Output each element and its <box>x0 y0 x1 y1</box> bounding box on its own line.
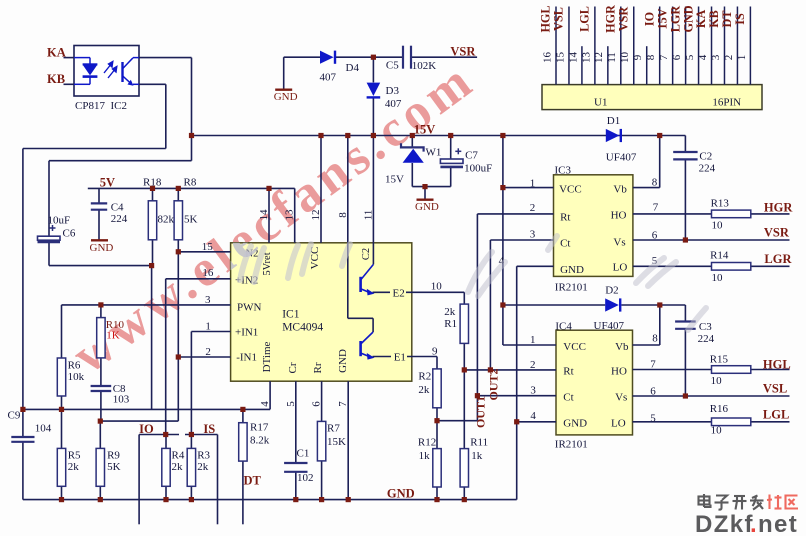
svg-text:82k: 82k <box>158 214 175 226</box>
svg-text:KB: KB <box>707 10 721 28</box>
wire pin16 vertical to IO <box>165 279 167 435</box>
GND symbol W1C7 <box>417 198 434 200</box>
svg-text:-IN1: -IN1 <box>236 352 257 364</box>
wire R11 top vertical <box>463 370 465 449</box>
svg-text:Cr: Cr <box>287 362 299 373</box>
wire R4 leads <box>165 435 167 449</box>
capacitor C4 224 <box>91 202 107 204</box>
diode D4 407 <box>320 51 334 64</box>
resistor R9 5K <box>96 448 104 486</box>
resistor R14 10 <box>712 263 751 271</box>
svg-text:2: 2 <box>530 359 536 371</box>
svg-text:DT: DT <box>244 474 262 488</box>
wire IO stub <box>139 434 179 436</box>
wire pin15-node vertical <box>177 252 179 421</box>
svg-text:15V: 15V <box>655 8 669 29</box>
svg-text:16PIN: 16PIN <box>712 97 741 109</box>
wire IC4 pin7 HO <box>633 369 712 371</box>
capacitor C1 102 <box>284 462 307 464</box>
wire R11 bottom lead <box>463 487 465 500</box>
wire LGL out <box>751 421 790 423</box>
svg-text:GND: GND <box>337 349 349 373</box>
svg-text:Ct: Ct <box>560 238 570 250</box>
svg-text:DT: DT <box>720 11 734 28</box>
svg-text:10uF: 10uF <box>48 215 71 227</box>
wire E1 output <box>373 356 438 358</box>
wire 5V rail <box>88 187 295 189</box>
wire pin1 vertical to IS <box>190 332 192 435</box>
wire C8/R9 node to vertical <box>100 420 178 422</box>
svg-text:407: 407 <box>385 98 402 110</box>
svg-text:224: 224 <box>111 213 128 225</box>
svg-text:8: 8 <box>337 212 349 218</box>
wire D3 top lead <box>372 57 374 82</box>
svg-text:15V: 15V <box>414 123 436 137</box>
svg-text:11: 11 <box>606 52 618 63</box>
svg-text:MC4094: MC4094 <box>282 322 323 334</box>
wire IC1 pin7 to GND <box>347 381 349 499</box>
svg-text:2k: 2k <box>172 461 184 473</box>
svg-text:1k: 1k <box>419 450 431 462</box>
grey watermark smudges <box>468 236 706 330</box>
wire IC1 pin15 <box>178 251 230 253</box>
svg-text:R11: R11 <box>470 437 488 449</box>
wire C4 bottom lead <box>98 210 100 239</box>
svg-text:E2: E2 <box>393 288 405 300</box>
opto LED <box>74 57 90 59</box>
wire IC3 pin8 Vb <box>633 187 660 189</box>
wire C6 to R18 node <box>49 265 152 267</box>
svg-text:16: 16 <box>202 267 214 279</box>
label E1 <box>391 351 407 361</box>
wire W1 bottom lead <box>411 163 413 187</box>
wire IC3 pin5 LO <box>633 265 712 267</box>
svg-text:7: 7 <box>658 54 670 60</box>
wire IC4 pin2 Rt <box>464 369 556 371</box>
IC1 MC4094 box <box>231 243 412 381</box>
GND symbol C4 <box>91 239 108 241</box>
connector U1 16PIN box <box>542 85 762 110</box>
svg-text:R7: R7 <box>327 423 340 435</box>
svg-text:Vs: Vs <box>615 392 627 404</box>
wire C9 bottom lead <box>22 442 24 500</box>
transistor Q upper E2 <box>359 277 362 292</box>
IC3 IR2101 box <box>554 175 633 277</box>
svg-text:10: 10 <box>712 272 724 284</box>
svg-text:PWN: PWN <box>237 302 262 314</box>
wire IS vertical <box>217 435 219 525</box>
svg-text:D2: D2 <box>605 285 618 297</box>
svg-text:E1: E1 <box>394 352 406 364</box>
wire D4 cathode to node <box>336 56 374 58</box>
svg-text:GND: GND <box>563 418 587 430</box>
wire IS stub <box>185 434 218 436</box>
wire R18-node vertical <box>151 266 153 410</box>
svg-text:12: 12 <box>593 52 605 63</box>
svg-text:R14: R14 <box>710 250 729 262</box>
svg-text:2k: 2k <box>68 461 80 473</box>
svg-text:10: 10 <box>619 52 631 64</box>
junction dots <box>189 133 194 138</box>
resistor R13 10 <box>712 210 751 218</box>
wire R3 leads <box>190 435 192 449</box>
svg-text:2: 2 <box>530 202 536 214</box>
svg-text:DZkf: DZkf <box>695 511 754 536</box>
svg-text:R1: R1 <box>444 318 457 330</box>
svg-text:HO: HO <box>611 210 627 222</box>
resistor R10 1K <box>97 318 105 358</box>
svg-text:10: 10 <box>711 375 723 387</box>
svg-text:C3: C3 <box>699 321 712 333</box>
svg-text:U1: U1 <box>594 97 607 109</box>
wire R17 bottom DT <box>242 461 244 524</box>
svg-text:15V: 15V <box>385 174 404 186</box>
svg-text:R12: R12 <box>418 437 436 449</box>
svg-text:R3: R3 <box>197 450 210 462</box>
wire C1 bottom lead <box>295 473 297 500</box>
svg-text:D3: D3 <box>386 85 400 97</box>
svg-text:W1: W1 <box>426 147 442 159</box>
diode D3 407 <box>367 83 381 96</box>
opto phototransistor <box>121 62 123 82</box>
wire C5 left lead <box>373 56 402 58</box>
wire to C6 branch <box>49 160 192 162</box>
wire W1-C7 bottom <box>412 186 450 188</box>
svg-text:10k: 10k <box>68 371 85 383</box>
svg-text:1: 1 <box>736 55 748 61</box>
svg-text:IC2: IC2 <box>111 100 128 112</box>
svg-text:4: 4 <box>530 410 536 422</box>
wire IC4 pin6 Vs VSL <box>633 395 790 397</box>
resistor R4 2k <box>162 448 170 486</box>
svg-text:GND: GND <box>274 91 298 103</box>
resistor R2 2k <box>433 369 441 408</box>
svg-text:GND: GND <box>681 5 695 32</box>
resistor R8 5K <box>174 201 182 240</box>
transistor Q lower E1 <box>359 341 362 356</box>
svg-text:C4: C4 <box>111 202 124 214</box>
svg-text:R5: R5 <box>68 450 81 462</box>
svg-text:6: 6 <box>650 386 656 398</box>
capacitor C2 224 <box>673 151 697 153</box>
wire to far left <box>23 148 166 150</box>
wire Vb4 riser <box>659 305 661 345</box>
wire E2 output <box>373 291 465 293</box>
svg-text:IC1: IC1 <box>282 309 300 321</box>
wire IC1 pin8 to 15V <box>347 136 349 243</box>
wire KA stub <box>64 57 75 59</box>
wire Vb3 riser <box>659 136 661 188</box>
wire R7 leads <box>321 381 323 421</box>
svg-text:IS: IS <box>203 422 215 436</box>
wire C1 top lead <box>295 381 297 462</box>
svg-text:5K: 5K <box>184 214 198 226</box>
wire GND stub W1C7 <box>424 187 426 200</box>
wire IC1 pin14 to 5V <box>268 188 270 242</box>
svg-text:+IN1: +IN1 <box>235 327 258 339</box>
capacitor C7 100uF <box>440 159 463 163</box>
wire DTime horizontal <box>23 408 270 410</box>
wire IC1 pin4 DTime <box>269 381 271 409</box>
GND symbol D4 <box>275 88 292 90</box>
svg-text:10: 10 <box>712 220 724 232</box>
wire R12 bottom lead <box>436 487 438 500</box>
svg-text:LGR: LGR <box>764 252 792 266</box>
svg-text:8.2k: 8.2k <box>250 435 270 447</box>
svg-text:1: 1 <box>205 321 211 333</box>
wire R8 top lead <box>177 188 179 200</box>
wire R1 bottom lead <box>463 343 465 370</box>
wire IC1 pin16 <box>166 278 231 280</box>
svg-text:2: 2 <box>723 55 735 61</box>
svg-text:DTime: DTime <box>261 342 273 373</box>
svg-text:VSR: VSR <box>616 7 630 32</box>
svg-text:8: 8 <box>652 177 658 189</box>
svg-text:224: 224 <box>698 333 715 345</box>
svg-text:16: 16 <box>541 52 553 64</box>
svg-text:CP817: CP817 <box>75 100 105 112</box>
wire IO vertical <box>138 435 140 525</box>
wire IC1 pin1 <box>191 331 230 333</box>
wire C2 bottom lead <box>684 160 686 240</box>
svg-text:HGR: HGR <box>604 5 618 33</box>
logo text 电子开发社区 <box>699 494 711 507</box>
svg-text:9: 9 <box>432 346 438 358</box>
svg-text:GND: GND <box>387 487 415 501</box>
svg-text:7: 7 <box>653 202 659 214</box>
wire LGR out <box>751 265 790 267</box>
svg-text:103: 103 <box>113 394 130 406</box>
svg-text:3: 3 <box>530 229 536 241</box>
svg-text:10: 10 <box>711 425 723 437</box>
wire IC1 pin13 to 5V <box>294 188 296 242</box>
wire Rt3-OUT1 vertical <box>476 214 478 421</box>
opto light arrows <box>104 62 117 79</box>
capacitor C9 104 <box>11 436 34 438</box>
resistor R11 1k <box>460 449 468 487</box>
resistor R5 2k <box>57 448 65 486</box>
wire IC3 pin6 Vs VSR <box>633 239 790 241</box>
svg-text:R6: R6 <box>68 360 81 372</box>
svg-text:VSL: VSL <box>552 7 566 31</box>
svg-text:4: 4 <box>259 401 271 407</box>
svg-text:3: 3 <box>530 385 536 397</box>
svg-text:C2: C2 <box>699 151 712 163</box>
wire R6 bottom lead <box>61 396 63 409</box>
wire R8 bottom lead <box>177 240 179 252</box>
svg-text:R15: R15 <box>710 354 729 366</box>
svg-text:14: 14 <box>258 209 270 221</box>
svg-text:15: 15 <box>202 241 214 253</box>
wire E2 to R1 <box>463 292 465 304</box>
IC1 internal wires <box>347 243 349 318</box>
svg-text:Vb: Vb <box>613 184 627 196</box>
wire C6 bottom lead <box>48 242 50 266</box>
svg-text:LGL: LGL <box>763 408 789 422</box>
svg-text:IC4: IC4 <box>555 321 572 333</box>
wire vertical to 15V rail <box>191 58 193 161</box>
resistor R16 10 <box>712 418 751 426</box>
zener W1 15V <box>401 143 424 151</box>
wire opto collector out <box>139 57 192 59</box>
svg-text:7: 7 <box>650 359 656 371</box>
diode D1 UF407 <box>606 129 620 142</box>
svg-text:6: 6 <box>671 54 683 60</box>
resistor R1 2k <box>460 304 468 343</box>
wire C5 right / VSR <box>412 56 478 58</box>
wire R6 top lead <box>61 305 63 358</box>
wire R18 top lead <box>152 188 154 200</box>
svg-text:2k: 2k <box>418 384 430 396</box>
svg-text:15K: 15K <box>327 436 346 448</box>
wire C8 bottom lead <box>100 392 102 422</box>
svg-text:VCC: VCC <box>559 184 582 196</box>
wire OUT1 horizontal <box>437 420 477 422</box>
svg-text:KA: KA <box>694 10 708 28</box>
svg-text:7: 7 <box>337 401 349 407</box>
svg-text:HO: HO <box>611 366 627 378</box>
svg-text:6: 6 <box>652 230 658 242</box>
svg-text:R9: R9 <box>107 450 120 462</box>
wire IC4 pin8 Vb <box>633 344 660 346</box>
svg-text:HGL: HGL <box>539 5 553 32</box>
wire GND riser <box>516 266 518 499</box>
svg-text:5: 5 <box>684 54 696 60</box>
svg-text:HGR: HGR <box>764 201 793 215</box>
U1 pin lines <box>555 7 557 85</box>
svg-text:VCC: VCC <box>563 341 586 353</box>
svg-text:8: 8 <box>652 333 658 345</box>
capacitor C6 10uF <box>38 236 61 240</box>
svg-text:102: 102 <box>297 472 314 484</box>
diode D2 UF407 <box>605 298 619 311</box>
svg-text:R8: R8 <box>184 177 197 189</box>
wire D4 anode <box>284 56 320 58</box>
wire HGL out <box>751 369 790 371</box>
wire vertical down left <box>165 84 167 148</box>
wire C2 top lead <box>684 136 686 152</box>
resistor R7 15K <box>317 421 325 461</box>
svg-text:9: 9 <box>632 54 644 60</box>
svg-text:4: 4 <box>697 54 709 60</box>
svg-text:R4: R4 <box>172 450 185 462</box>
wire VCC node vertical <box>502 136 504 346</box>
optocoupler IC2 CP817 box <box>74 46 139 97</box>
svg-text:15: 15 <box>554 52 566 64</box>
svg-text:HGL: HGL <box>763 358 791 372</box>
resistor R3 2k <box>187 448 195 486</box>
svg-text:VSR: VSR <box>450 45 476 59</box>
svg-text:5K: 5K <box>107 461 121 473</box>
svg-text:5V: 5V <box>100 176 115 190</box>
wire IC1 pin3 <box>62 304 231 306</box>
wire W1 top lead <box>411 136 413 148</box>
svg-text:1: 1 <box>530 178 536 190</box>
svg-text:13: 13 <box>284 209 296 221</box>
svg-text:102K: 102K <box>412 60 437 72</box>
svg-text:104: 104 <box>35 423 52 435</box>
svg-text:IO: IO <box>642 12 656 26</box>
grey streaks on IC1 top <box>240 244 350 282</box>
wire R2 bottom lead <box>436 408 438 449</box>
wire IC3 pin3 Ct <box>490 239 553 241</box>
svg-text:5: 5 <box>285 401 297 407</box>
svg-text:R13: R13 <box>711 198 730 210</box>
svg-text:C9: C9 <box>8 410 21 422</box>
svg-text:GND: GND <box>560 264 584 276</box>
svg-text:D1: D1 <box>607 115 620 127</box>
svg-text:VSR: VSR <box>764 226 790 240</box>
wire C7 top lead <box>450 136 452 159</box>
svg-text:KA: KA <box>47 46 66 60</box>
wire IC3 pin2 Rt <box>477 213 553 215</box>
svg-text:.: . <box>750 511 757 536</box>
svg-text:R18: R18 <box>143 177 162 189</box>
wire IC1 pin12 to 15V <box>320 136 322 243</box>
svg-text:VSL: VSL <box>763 382 787 396</box>
wire D2 anode <box>503 304 605 306</box>
svg-text:Rr: Rr <box>312 362 324 373</box>
svg-text:14: 14 <box>567 52 579 64</box>
svg-text:D4: D4 <box>346 62 360 74</box>
wire IC4 pin1 VCC <box>503 344 556 346</box>
svg-text:R2: R2 <box>418 371 431 383</box>
wire D2 cathode <box>621 304 685 306</box>
svg-text:GND: GND <box>90 242 114 254</box>
svg-text:IC3: IC3 <box>555 165 572 177</box>
svg-text:3: 3 <box>710 54 722 60</box>
svg-text:5: 5 <box>650 413 656 425</box>
svg-text:LGL: LGL <box>578 6 592 32</box>
svg-text:1: 1 <box>530 334 536 346</box>
svg-text:Rt: Rt <box>560 212 570 224</box>
wire C7 bottom lead <box>450 168 452 187</box>
wire E1 to R2 <box>436 357 438 369</box>
capacitor C5 102K <box>402 46 404 69</box>
wire left vertical to C9 <box>22 149 24 437</box>
wire HGR out <box>751 213 790 215</box>
svg-text:Vs: Vs <box>613 237 625 249</box>
svg-text:Vb: Vb <box>615 341 629 353</box>
capacitor C8 103 <box>91 385 112 387</box>
svg-text:IR2101: IR2101 <box>555 439 588 451</box>
resistor R6 10k <box>57 358 65 396</box>
resistor R15 10 <box>712 366 751 374</box>
svg-text:C1: C1 <box>297 448 310 460</box>
svg-text:net: net <box>758 511 798 536</box>
wire 15V rail <box>192 135 686 137</box>
svg-text:10: 10 <box>431 281 443 293</box>
svg-text:LGR: LGR <box>668 6 682 33</box>
wire R10 bottom lead <box>100 358 102 385</box>
svg-text:C2: C2 <box>361 248 372 260</box>
svg-text:OUT2: OUT2 <box>487 368 501 400</box>
IC4 IR2101 box <box>556 330 633 435</box>
svg-text:Ct: Ct <box>563 392 573 404</box>
wire R9 leads <box>99 421 101 448</box>
svg-text:IO: IO <box>139 422 154 436</box>
wire C3 bottom lead <box>684 330 686 396</box>
wire IC3 pin7 HO <box>633 213 712 215</box>
svg-text:1k: 1k <box>471 450 483 462</box>
wire IC4 pin3 Ct <box>477 395 556 397</box>
resistor R18 82k <box>148 201 156 240</box>
wire IC3 pin1 VCC <box>503 187 554 189</box>
wire IC1 pin11 to 15V <box>372 136 374 243</box>
resistor R12 1k <box>433 449 441 487</box>
wire IC3 pin4 GND <box>517 265 554 267</box>
svg-text:2k: 2k <box>197 461 209 473</box>
